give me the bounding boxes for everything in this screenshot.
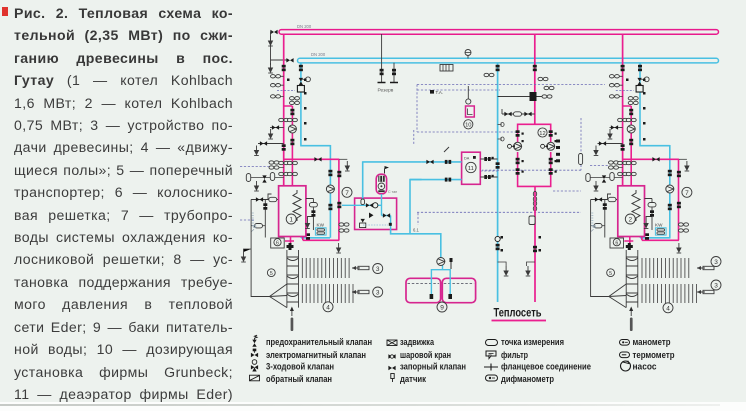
- valve on side pipe: [311, 210, 315, 216]
- legend icon 3-way valve: [251, 360, 258, 372]
- furnace housing below boiler 1: [271, 238, 285, 248]
- stubs from box11 to riser: [480, 159, 497, 177]
- furnace housing below boiler 2: [610, 238, 624, 248]
- legend text 9: [501, 337, 564, 347]
- label on tank line: [413, 228, 419, 233]
- flange pairs right drop mid: [618, 118, 637, 121]
- magenta drop to box 8: [534, 34, 536, 124]
- tank pipe end markers: [430, 294, 452, 299]
- side pipe loop right of boiler 2: [645, 199, 653, 231]
- svg-text:DN 200: DN 200: [297, 24, 312, 29]
- svg-text:фильтр: фильтр: [501, 350, 528, 360]
- stub A right with valve and drain: [610, 127, 623, 129]
- gate valve on cyan bottom: [306, 233, 310, 239]
- gate valve on right cyan bottom: [645, 233, 649, 239]
- drain branch magenta: [527, 262, 536, 266]
- valve and strainer treatment row: [256, 197, 277, 201]
- flag sensor above capsule: [385, 166, 390, 174]
- node label 4 right: [663, 303, 673, 313]
- supply pipe drop right boiler: [622, 34, 624, 186]
- valve assembly on return drop: [297, 86, 304, 93]
- funnel right: [609, 284, 626, 308]
- node label 4 left: [323, 302, 333, 312]
- legend text 4: [266, 374, 332, 384]
- wire reserve stub from return bus: [393, 63, 395, 82]
- level link right: [591, 225, 605, 227]
- small marks inside unit: [389, 223, 392, 226]
- valve on magenta teploset: [533, 246, 537, 252]
- blind flanges: [378, 82, 399, 84]
- pump on right cyan riser: [666, 185, 674, 193]
- far-left gray water line: [251, 200, 269, 297]
- legend text 10: [501, 350, 528, 360]
- valve on right cyan riser: [668, 170, 672, 210]
- softener unit box left (cyan): [315, 228, 326, 235]
- level ticks: [252, 213, 256, 232]
- valve stub A right: [611, 125, 618, 129]
- level link with strainer: [251, 225, 265, 227]
- oval quad meters right: [618, 163, 622, 168]
- drain below right downpipe: [677, 243, 682, 253]
- legend icon stop valve: [388, 366, 395, 370]
- valves on right downpipe: [677, 171, 681, 208]
- black cross fitting: [287, 243, 294, 250]
- valve on supply out: [314, 157, 321, 161]
- svg-text:задвижка: задвижка: [400, 337, 435, 347]
- side pipe loop right of boiler 1: [306, 199, 314, 231]
- node label 3 left bottom: [373, 287, 383, 297]
- return pipe drop left boiler: [300, 63, 330, 238]
- svg-text:Резерв: Резерв: [378, 88, 394, 94]
- node label 3 right bottom: [711, 280, 721, 290]
- svg-text:предохранительный клапан: предохранительный клапан: [266, 337, 372, 347]
- push rod arrow left bottom: [352, 290, 369, 294]
- legend icon check valve: [250, 375, 260, 381]
- push rod arrow right bottom: [697, 290, 714, 294]
- return bus DN200 (cyan pipe): [298, 58, 719, 63]
- svg-text:насос: насос: [633, 362, 657, 372]
- node label 10: [464, 120, 473, 129]
- cyan feeds into box 11: [410, 162, 462, 180]
- svg-text:6.1: 6.1: [413, 228, 419, 233]
- drain below downpipe: [336, 243, 341, 253]
- svg-text:обратный клапан: обратный клапан: [266, 374, 332, 384]
- legend text 8: [400, 374, 426, 384]
- pump on tank feed: [437, 258, 445, 266]
- svg-text:запорный клапан: запорный клапан: [400, 362, 466, 372]
- svg-text:3: 3: [714, 283, 718, 290]
- svg-text:7: 7: [685, 190, 689, 197]
- stub B with valve and drain: [258, 143, 284, 145]
- legend text 5: [400, 337, 435, 347]
- stub flanges on return riser: [498, 123, 505, 142]
- sensor marks right drops: [626, 79, 646, 141]
- valves on box11 feeds: [426, 160, 451, 182]
- circulation pump inside unit: [366, 203, 378, 208]
- cross link at y114: [502, 109, 535, 116]
- svg-text:дифманометр: дифманометр: [501, 374, 554, 384]
- legend text 12: [501, 374, 554, 384]
- dashed stub left cluster: [277, 90, 295, 92]
- treatment row y199: [251, 194, 279, 200]
- valve on reserve drop: [380, 69, 384, 75]
- legend text 13: [633, 337, 671, 347]
- flange pairs next risers: [484, 73, 554, 89]
- gate on return riser: [496, 162, 500, 168]
- svg-text:электромагнитный клапан: электромагнитный клапан: [266, 350, 366, 360]
- drain arrow cyan teploset: [504, 266, 509, 276]
- flow meters quad: [269, 161, 279, 169]
- legend text 3: [266, 362, 334, 372]
- gate on second vertical: [263, 203, 267, 209]
- node label 1: [286, 214, 296, 224]
- svg-text:датчик: датчик: [400, 374, 426, 384]
- svg-text:Теплосеть: Теплосеть: [494, 308, 542, 320]
- legend icon safety valve: [252, 335, 257, 347]
- valve gate on right pump branch: [629, 109, 633, 115]
- tee to pump branch: [284, 106, 293, 186]
- fuel feed arrow right: [629, 307, 633, 332]
- valve right side pipe: [650, 210, 654, 216]
- svg-text:11: 11: [468, 166, 474, 172]
- funnel left: [270, 284, 287, 308]
- pressure unit pipe loop 8: [518, 124, 551, 192]
- svg-text:10: 10: [465, 123, 471, 129]
- magenta feed elbow into grate: [285, 237, 294, 246]
- heat exchanger coil boiler 2: [632, 190, 640, 221]
- drain on fitting row right: [594, 181, 599, 191]
- svg-text:5: 5: [270, 271, 273, 277]
- sensor marks right of drops: [287, 79, 307, 141]
- legend icon flange connection: [484, 364, 498, 371]
- gauge on return drop: [299, 77, 311, 85]
- drain stub B right: [594, 146, 599, 156]
- svg-text:3-ходовой клапан: 3-ходовой клапан: [266, 362, 334, 372]
- node label 6 left: [276, 240, 279, 246]
- node label 5 left: [267, 269, 275, 277]
- svg-text:12: 12: [539, 131, 545, 137]
- dashed control loop top: [240, 85, 605, 226]
- grate column right: [626, 250, 638, 308]
- stub B right with valve and drain: [598, 143, 623, 145]
- node label 3 left top: [373, 264, 383, 274]
- diagonal mark: [444, 147, 449, 152]
- pump on cyan riser: [326, 185, 334, 193]
- legend text 2: [266, 350, 366, 360]
- node label 7 left: [342, 187, 352, 197]
- node label 3 right top: [711, 257, 721, 267]
- tee to pump branch right: [623, 106, 632, 186]
- boiler 2 body: [618, 186, 645, 237]
- legend icon pump: [621, 361, 631, 371]
- svg-text:7: 7: [345, 190, 349, 197]
- compensator loop: [529, 216, 535, 225]
- ShT box: [440, 65, 453, 72]
- KW label right: [655, 222, 663, 227]
- svg-text:2: 2: [628, 217, 632, 224]
- boiler 1 body: [279, 186, 306, 237]
- wire to drain far-left: [244, 249, 252, 252]
- legend icon sensor: [391, 374, 394, 383]
- tank internal pipes: [431, 264, 450, 297]
- moving floor hatch left top: [302, 258, 349, 278]
- valve on supply drop: [282, 65, 286, 71]
- flange stub pairs: [339, 223, 349, 232]
- legend icon manometer: [620, 340, 630, 346]
- check mark inside unit: [369, 213, 374, 219]
- pump left loop8: [514, 142, 522, 150]
- strainer on level link: [255, 224, 263, 228]
- drain branch cyan: [498, 262, 507, 266]
- drain on side pipe: [305, 219, 310, 229]
- flange stub pairs right: [679, 223, 689, 232]
- valve on cyan riser: [328, 170, 332, 210]
- svg-text:Т.А.: Т.А.: [436, 90, 444, 95]
- node label 7 right: [682, 187, 692, 197]
- tank 9 left: [406, 278, 441, 302]
- drain stub on supply out: [339, 158, 347, 160]
- legend icon filter: [486, 351, 496, 359]
- air vent arrow top-left: [268, 36, 273, 46]
- svg-text:4: 4: [666, 305, 670, 312]
- softener unit box right (cyan): [655, 228, 666, 235]
- legend icon gate: [387, 340, 397, 346]
- label right of capsule: [388, 190, 397, 194]
- drain on fitting row: [254, 181, 259, 191]
- pump P2 right boiler: [627, 125, 635, 133]
- sensor marks teploset: [501, 236, 542, 252]
- KW label left: [317, 222, 325, 227]
- flow meters on right supply drop: [609, 75, 619, 99]
- strainer inside unit: [361, 199, 365, 205]
- supply pipe drop left boiler: [283, 34, 285, 186]
- svg-text:3: 3: [714, 259, 718, 266]
- strainer and valve row: [246, 173, 274, 183]
- cyan line right of unit: [390, 179, 441, 258]
- svg-text:3: 3: [376, 266, 380, 273]
- legend icon thermometer: [620, 352, 630, 358]
- return pipe drop right boiler: [639, 63, 670, 238]
- tank 9 right: [442, 278, 475, 302]
- node label 2: [625, 214, 635, 224]
- valve stub A: [272, 125, 279, 129]
- legend text 11: [501, 362, 591, 372]
- level ticks right: [591, 213, 595, 232]
- ball valve circle cyan: [495, 236, 500, 241]
- oval quad left of return drop: [290, 97, 300, 105]
- gauge on right return drop: [637, 77, 649, 85]
- flange circle on return bus: [465, 50, 471, 59]
- magenta feed elbow into right grate: [624, 237, 633, 246]
- valve stub B: [260, 141, 267, 145]
- valve on cyan teploset: [496, 244, 500, 250]
- fitting row right y176: [586, 177, 623, 179]
- node label 11: [466, 162, 476, 172]
- svg-text:фланцевое соединение: фланцевое соединение: [501, 362, 591, 372]
- flanges above boiler: [279, 172, 298, 175]
- actuator to box10: [466, 86, 471, 104]
- moving floor hatch right bottom: [642, 284, 697, 303]
- svg-text:6: 6: [615, 240, 618, 246]
- supply out line right boiler: [623, 159, 679, 240]
- valve stub B right: [599, 141, 606, 145]
- sensor marks left of dashed loop: [556, 140, 560, 163]
- gate valves on loop 8: [516, 130, 553, 174]
- cyan feed into unit top: [363, 161, 422, 198]
- label Teploset: [494, 308, 542, 320]
- caption text block: [2, 7, 8, 16]
- strainer on level link right: [594, 224, 602, 228]
- flanges above right boiler: [618, 172, 637, 175]
- bottom-left valve inside unit: [360, 219, 366, 228]
- valve on reserve stub: [392, 69, 396, 75]
- dashed stub right cluster: [616, 90, 634, 92]
- strainer right side pipe: [648, 203, 656, 207]
- legend text 6: [400, 350, 451, 360]
- push rod arrow right top: [697, 266, 714, 270]
- valve gate on pump branch: [290, 109, 294, 115]
- valve on right supply out: [652, 157, 659, 161]
- sensor in dashed loop: [579, 154, 583, 165]
- dosing capsule unit: [376, 174, 386, 194]
- drain stub right supply out: [679, 158, 687, 160]
- pump P1 left boiler: [288, 125, 296, 133]
- flow meters quad right: [609, 161, 619, 169]
- oval pair stubs right of right downpipe: [679, 225, 688, 231]
- svg-text:DN 200: DN 200: [311, 52, 326, 57]
- sensor on tank feed 2: [450, 258, 453, 269]
- valve at supply bus start: [270, 30, 277, 34]
- svg-text:DA: DA: [464, 157, 470, 161]
- cyan pipe inside unit: [342, 194, 391, 229]
- heat exchanger coil boiler 1: [293, 190, 301, 221]
- drain cocks left of pumps: [508, 144, 548, 148]
- label Rezerv: [378, 88, 394, 94]
- svg-text:термометр: термометр: [633, 350, 675, 360]
- gate on second vertical right: [603, 203, 607, 209]
- moving floor hatch left bottom: [302, 284, 353, 303]
- valve on return drop: [299, 65, 303, 71]
- magenta down from box8: [534, 192, 536, 302]
- drain far-left: [241, 252, 246, 262]
- legend text 1: [266, 337, 372, 347]
- T.A. mark on dashed: [430, 90, 443, 95]
- strainer on side pipe: [309, 203, 317, 207]
- second gray vertical: [264, 200, 266, 238]
- central unit box magenta: [355, 198, 397, 229]
- valves below pump: [279, 139, 298, 165]
- svg-text:KW: KW: [655, 222, 663, 227]
- pump right loop8: [547, 142, 555, 150]
- svg-text:C тан: C тан: [388, 190, 397, 194]
- label DN 200 supply: [297, 24, 312, 29]
- second gray vertical right: [604, 200, 606, 238]
- oval stubs left of right supply drop: [610, 76, 622, 96]
- drain right side pipe: [644, 219, 649, 229]
- valve on supply drop right: [621, 65, 625, 71]
- svg-text:3: 3: [376, 290, 380, 297]
- svg-text:точка измерения: точка измерения: [501, 337, 564, 347]
- node label 5 right: [607, 269, 615, 277]
- far gray water line right: [591, 200, 609, 297]
- bowtie right inside unit: [383, 213, 390, 217]
- underline Teploset: [492, 320, 547, 322]
- legend icon measuring point: [486, 340, 498, 346]
- drain arrow magenta teploset: [526, 266, 531, 276]
- drain stub A: [268, 129, 273, 139]
- gate on right supply drop mid: [621, 144, 625, 150]
- drain stub A right: [608, 129, 613, 139]
- svg-text:4: 4: [326, 304, 330, 311]
- svg-text:манометр: манометр: [633, 337, 671, 347]
- wire gray to drain left of supply: [271, 32, 288, 65]
- svg-text:шаровой кран: шаровой кран: [400, 350, 451, 360]
- valve cyan riser top: [496, 65, 500, 71]
- stub A with valve and drain: [270, 127, 284, 129]
- oval stubs left of supply drop: [272, 76, 284, 96]
- legend icon solenoid valve: [251, 349, 258, 358]
- push rod arrow left top: [352, 266, 369, 270]
- valves below right pump: [618, 139, 637, 165]
- dashed inside unit: [363, 224, 388, 226]
- oval quad meters: [279, 163, 284, 168]
- valves on downpipe: [337, 171, 341, 208]
- oval pair stubs right of downpipe: [339, 225, 348, 231]
- cyan riser to teploset: [497, 63, 499, 302]
- dashed to quad: [590, 165, 608, 167]
- water level dashes tanks: [408, 283, 475, 285]
- flange pairs on supply drop mid: [279, 118, 298, 121]
- fitting row y176: [246, 177, 284, 179]
- legend text 15: [633, 362, 657, 372]
- flanges on stubs: [484, 157, 493, 179]
- legend text 14: [633, 350, 675, 360]
- oval quad left of right return drop: [628, 97, 638, 105]
- dosing unit box 10: [466, 106, 475, 117]
- flow meters on supply drop: [271, 75, 281, 99]
- strainer and valve row right: [586, 173, 614, 183]
- wire reserve drop from supply bus: [381, 34, 383, 82]
- drain arrow below: [268, 63, 273, 73]
- svg-text:1: 1: [289, 217, 293, 224]
- black cross fitting right: [626, 243, 633, 250]
- legend text 7: [400, 362, 466, 372]
- grate column left: [287, 250, 299, 308]
- node label 9: [437, 302, 447, 312]
- supply out line left boiler: [284, 159, 340, 240]
- supply bus DN200 (magenta pipe): [279, 30, 719, 35]
- drain on right supply out: [685, 161, 690, 171]
- valve assembly on right return drop: [636, 86, 643, 93]
- label DN 200 return: [311, 52, 326, 57]
- sensor marks loop8: [522, 133, 557, 173]
- svg-text:6: 6: [276, 240, 279, 246]
- fuel feed arrow left: [290, 307, 294, 332]
- drain on supply out: [345, 161, 350, 171]
- deaerator box: [462, 152, 481, 184]
- node label 6 right: [615, 240, 618, 246]
- cross link valves at y96: [498, 92, 552, 101]
- legend icon diff manometer: [486, 375, 498, 381]
- drain stub B: [254, 146, 259, 156]
- valve at return bus start: [286, 58, 293, 62]
- valve and strainer treatment right: [595, 197, 616, 201]
- node label 12: [538, 128, 547, 137]
- legend icon ball valve: [388, 354, 395, 358]
- svg-text:KW: KW: [317, 222, 325, 227]
- flange pair below loop8: [533, 192, 536, 212]
- moving floor hatch right top: [642, 258, 689, 278]
